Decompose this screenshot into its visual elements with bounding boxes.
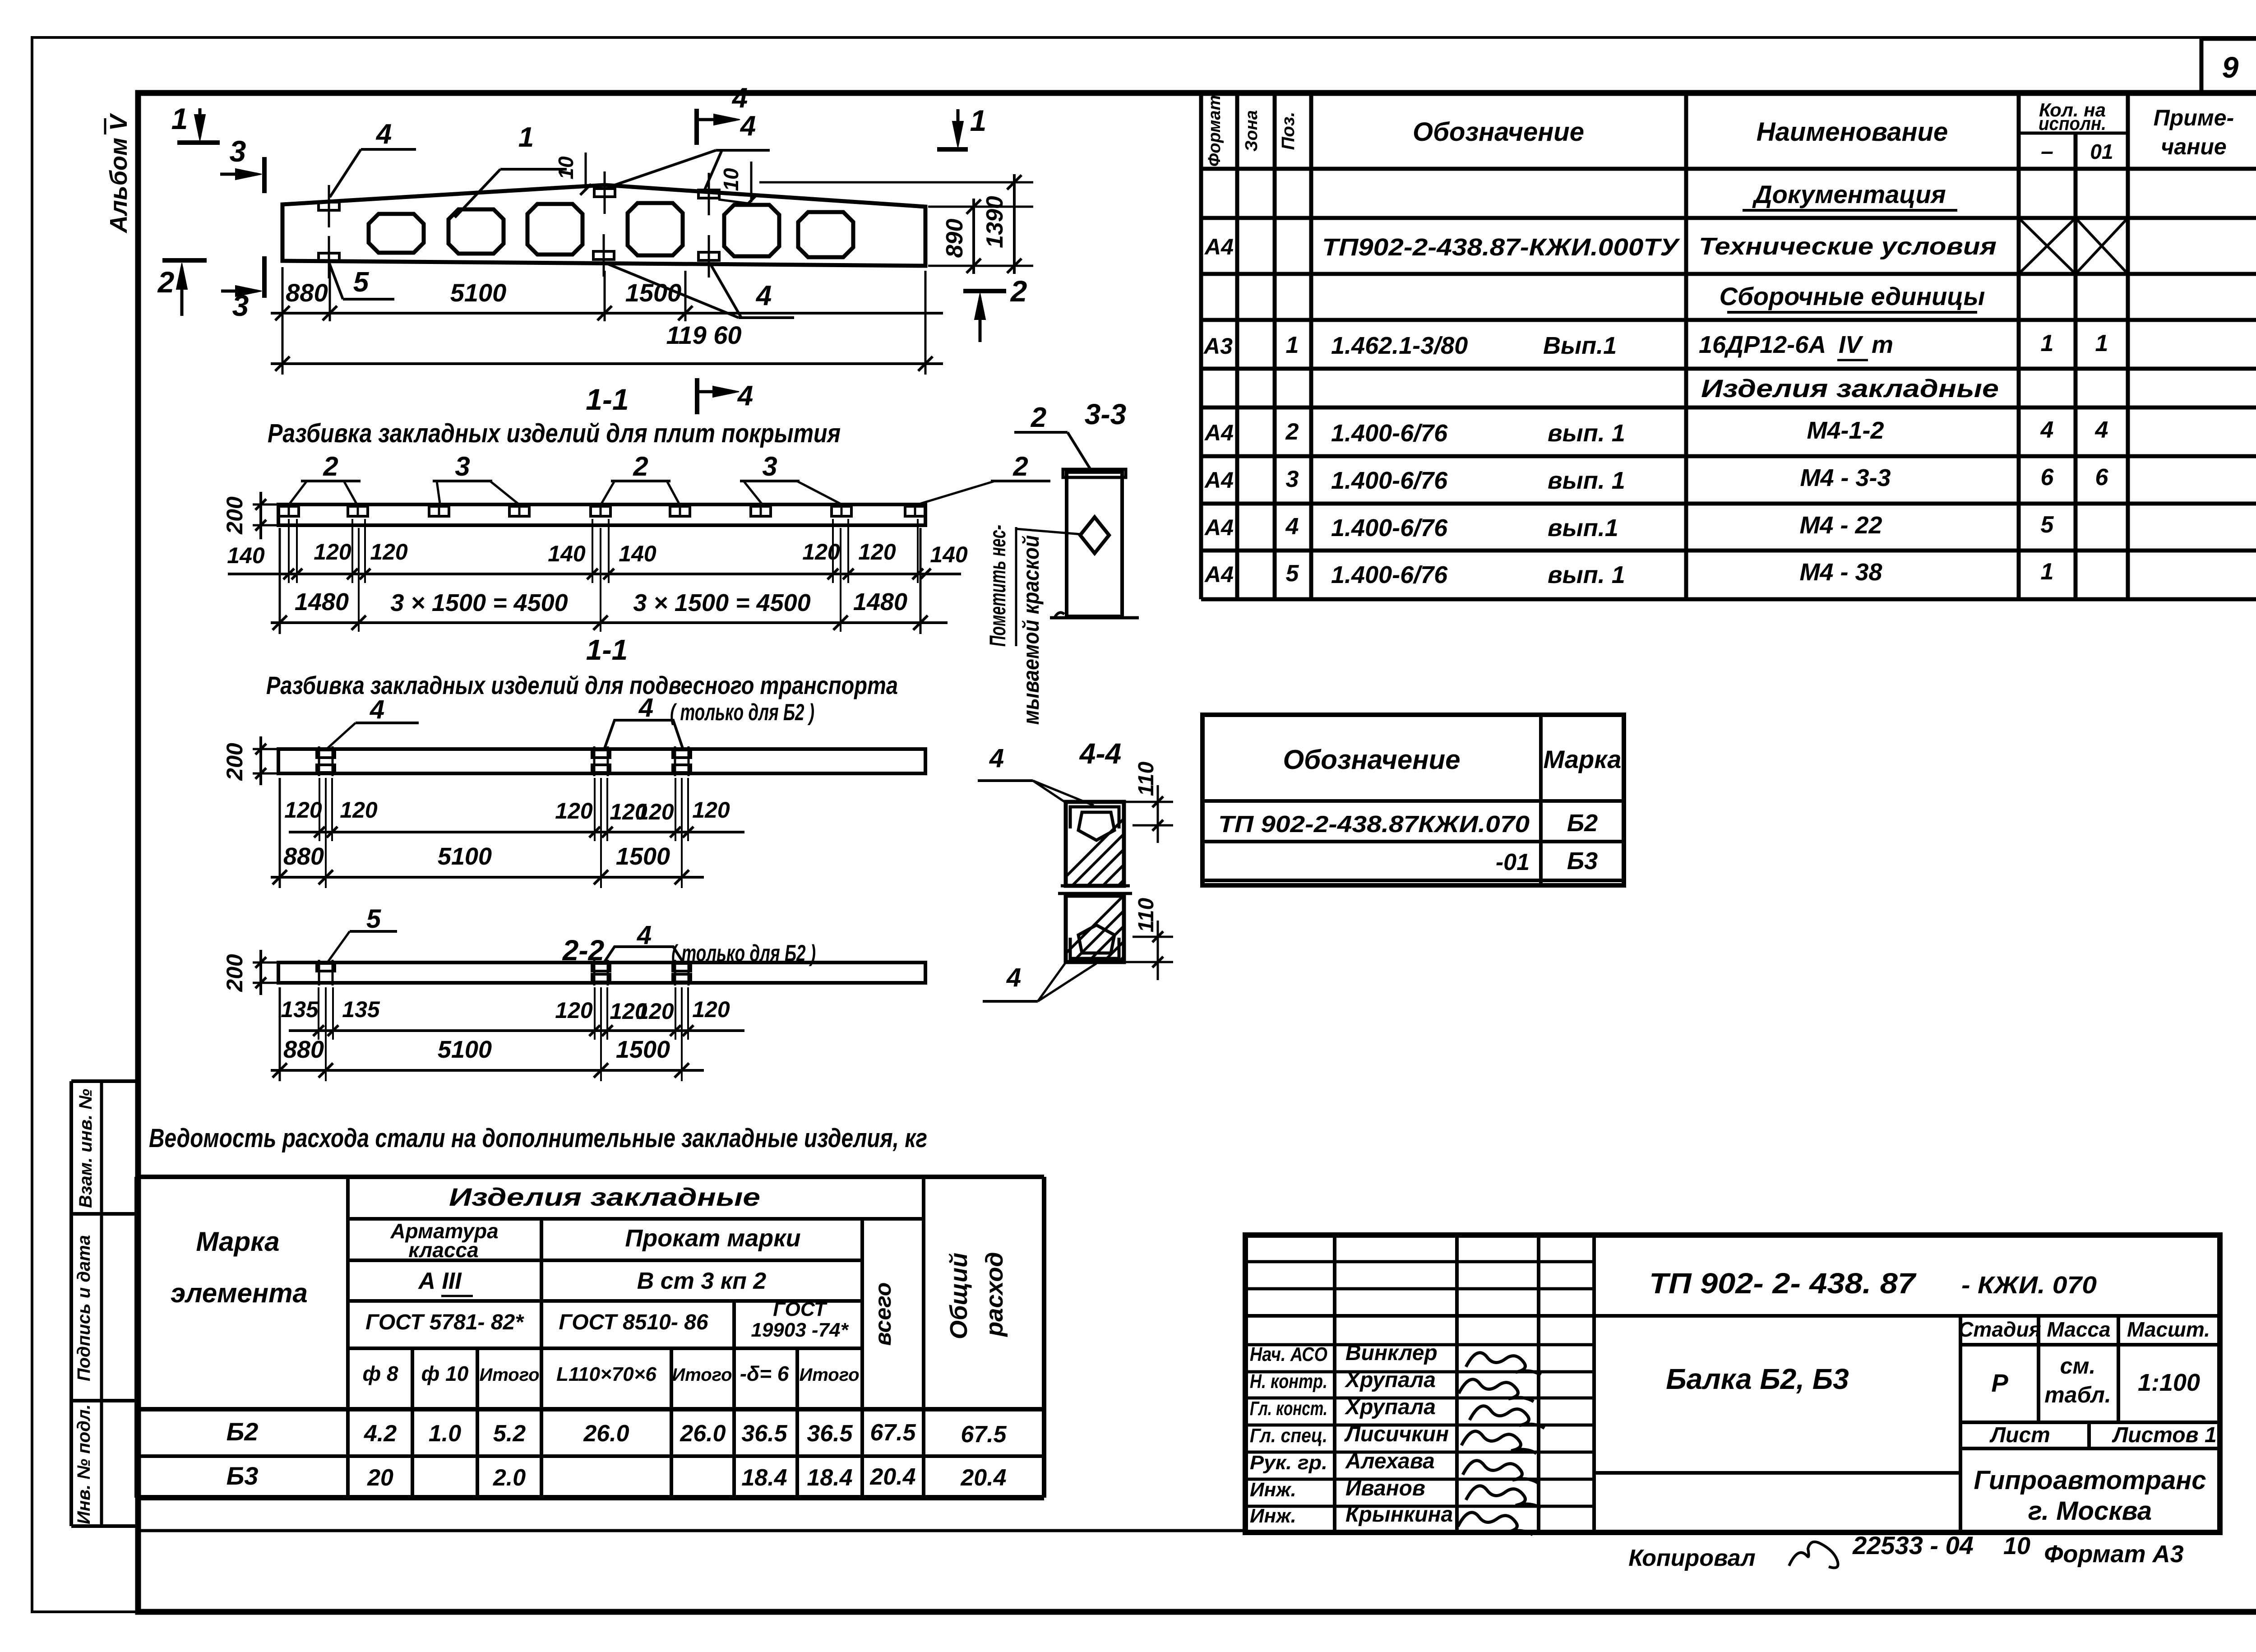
svg-text:Лисичкин: Лисичкин <box>1344 1422 1449 1446</box>
svg-text:3: 3 <box>762 451 777 481</box>
svg-text:120: 120 <box>555 998 593 1023</box>
title block vertical lines <box>1333 1235 1336 1532</box>
svg-text:ГОСТ: ГОСТ <box>773 1298 828 1320</box>
bar 1-1 height dim 200 <box>253 504 277 506</box>
svg-text:120: 120 <box>555 798 593 824</box>
svg-text:Зона: Зона <box>1242 110 1261 152</box>
svg-text:Винклер: Винклер <box>1345 1341 1438 1365</box>
svg-text:ГОСТ 8510- 86: ГОСТ 8510- 86 <box>559 1310 708 1334</box>
svg-text:3 × 1500 = 4500: 3 × 1500 = 4500 <box>633 589 810 616</box>
svg-text:6: 6 <box>2041 464 2054 491</box>
svg-text:Наименование: Наименование <box>1757 117 1948 147</box>
svg-text:140: 140 <box>619 541 656 566</box>
svg-text:5.2: 5.2 <box>493 1421 526 1447</box>
svg-text:2.0: 2.0 <box>493 1465 526 1491</box>
svg-text:вып. 1: вып. 1 <box>1548 467 1625 494</box>
svg-text:Хрупала: Хрупала <box>1344 1395 1436 1419</box>
svg-text:А3: А3 <box>1203 333 1233 359</box>
svg-text:Альбом V: Альбом V <box>105 113 132 234</box>
svg-text:4: 4 <box>737 380 753 412</box>
svg-text:200: 200 <box>222 743 247 781</box>
svg-text:Пометить нес-: Пометить нес- <box>985 525 1010 647</box>
bar 1-1 outline <box>278 504 925 525</box>
svg-text:26.0: 26.0 <box>583 1421 629 1447</box>
bar 2-2 bolts <box>317 963 335 971</box>
svg-text:Технические условия: Технические условия <box>1699 233 1997 260</box>
svg-text:135: 135 <box>281 997 319 1022</box>
svg-text:4: 4 <box>2040 417 2054 443</box>
svg-text:Прокат марки: Прокат марки <box>625 1225 800 1252</box>
left stamp boxes <box>69 1081 73 1526</box>
svg-text:67.5: 67.5 <box>961 1421 1007 1448</box>
svg-text:880: 880 <box>283 1036 324 1063</box>
bar 3 offset dims <box>289 1029 744 1032</box>
svg-text:вып. 1: вып. 1 <box>1548 561 1625 588</box>
svg-text:Приме-: Приме- <box>2154 105 2234 130</box>
svg-text:120: 120 <box>636 799 674 824</box>
svg-text:1.400-6/76: 1.400-6/76 <box>1331 467 1448 494</box>
svg-text:200: 200 <box>222 954 247 992</box>
svg-text:Инж.: Инж. <box>1250 1479 1296 1501</box>
svg-text:Стадия: Стадия <box>1958 1318 2041 1341</box>
svg-text:Инв. № подл.: Инв. № подл. <box>74 1404 94 1524</box>
svg-text:Итого: Итого <box>799 1365 859 1385</box>
svg-text:Взам. инв. №: Взам. инв. № <box>76 1089 96 1208</box>
svg-text:Масшт.: Масшт. <box>2127 1318 2210 1341</box>
svg-text:2: 2 <box>1285 419 1299 445</box>
svg-text:Марка: Марка <box>1544 745 1622 773</box>
svg-text:119 60: 119 60 <box>666 321 741 349</box>
beam height dim 890 <box>928 206 1033 208</box>
svg-text:22533 - 04: 22533 - 04 <box>1852 1531 1974 1559</box>
svg-text:880: 880 <box>283 843 324 870</box>
svg-text:Марка: Марка <box>196 1226 279 1257</box>
svg-text:Поз.: Поз. <box>1278 112 1298 150</box>
svg-text:Иванов: Иванов <box>1345 1476 1425 1500</box>
svg-text:4: 4 <box>740 111 756 142</box>
section 4-4 lower cut <box>1066 896 1124 962</box>
designation marka table <box>1202 715 1624 885</box>
svg-text:140: 140 <box>548 541 586 566</box>
svg-text:IV: IV <box>1839 331 1863 358</box>
svg-text:А III: А III <box>417 1268 462 1294</box>
svg-text:3: 3 <box>455 451 470 481</box>
svg-text:4: 4 <box>1285 514 1299 540</box>
svg-text:2: 2 <box>323 451 338 481</box>
svg-text:5: 5 <box>353 267 370 298</box>
svg-text:Итого: Итого <box>672 1365 732 1385</box>
svg-text:ТП902-2-438.87-КЖИ.000ТУ: ТП902-2-438.87-КЖИ.000ТУ <box>1322 234 1680 261</box>
svg-text:класса: класса <box>408 1238 478 1262</box>
svg-text:Б2: Б2 <box>1567 810 1598 837</box>
bar 1-1 embedded plates <box>279 506 299 516</box>
svg-text:Масса: Масса <box>2047 1318 2110 1341</box>
svg-text:120: 120 <box>636 999 674 1024</box>
svg-text:10: 10 <box>2003 1532 2030 1559</box>
svg-text:36.5: 36.5 <box>807 1421 853 1447</box>
svg-text:140: 140 <box>227 543 265 568</box>
svg-text:5: 5 <box>366 904 381 934</box>
svg-text:Общий: Общий <box>945 1253 972 1339</box>
svg-text:1500: 1500 <box>616 843 670 870</box>
svg-text:1390: 1390 <box>982 196 1008 248</box>
svg-text:1-1: 1-1 <box>586 383 629 416</box>
svg-text:3 × 1500 = 4500: 3 × 1500 = 4500 <box>390 589 568 616</box>
svg-text:1.0: 1.0 <box>429 1421 461 1447</box>
svg-text:26.0: 26.0 <box>680 1421 726 1447</box>
svg-text:-01: -01 <box>1496 849 1530 875</box>
svg-text:880: 880 <box>286 278 328 307</box>
svg-text:Разбивка закладных изделий: Разбивка закладных изделий для подвесног… <box>266 671 898 699</box>
section 3-3 base line <box>1050 616 1139 620</box>
embedded plate 4 bottom middle <box>593 251 614 259</box>
svg-text:ТП 902- 2- 438. 87: ТП 902- 2- 438. 87 <box>1649 1267 1917 1300</box>
svg-text:1: 1 <box>1286 332 1299 358</box>
svg-text:ф 10: ф 10 <box>421 1362 469 1385</box>
section 3-3 top plate 2 <box>1063 469 1126 477</box>
bar 1-1 main dim line <box>271 621 948 624</box>
embedded plate 4 top right <box>698 190 719 198</box>
svg-text:чание: чание <box>2161 134 2227 159</box>
bar 2 height dim 200 <box>253 748 277 750</box>
section 4-4 upper channel <box>1070 807 1119 828</box>
svg-text:6: 6 <box>2095 464 2109 491</box>
svg-text:120: 120 <box>340 797 378 823</box>
title block horizontal lines <box>1245 1260 1594 1263</box>
svg-text:120: 120 <box>692 797 730 823</box>
bar 3 main dims <box>271 1069 704 1072</box>
svg-text:Гипроавтотранс: Гипроавтотранс <box>1974 1466 2206 1495</box>
svg-text:Обозначение: Обозначение <box>1413 117 1584 147</box>
svg-text:890: 890 <box>942 219 968 258</box>
svg-text:135: 135 <box>342 997 380 1022</box>
svg-text:табл.: табл. <box>2044 1382 2111 1407</box>
svg-text:всего: всего <box>870 1282 896 1346</box>
svg-text:Рук. гр.: Рук. гр. <box>1250 1452 1327 1474</box>
beam B2 elevation outline <box>282 185 925 266</box>
svg-text:2: 2 <box>633 451 648 481</box>
svg-text:А4: А4 <box>1204 234 1234 259</box>
section 4-4 break lines <box>1061 884 1130 888</box>
svg-text:Р: Р <box>1991 1369 2008 1397</box>
svg-text:4: 4 <box>375 119 392 150</box>
svg-text:10: 10 <box>554 156 578 180</box>
svg-text:1: 1 <box>518 122 534 153</box>
svg-text:1: 1 <box>970 104 987 137</box>
svg-text:10: 10 <box>719 168 743 191</box>
svg-text:120: 120 <box>370 539 408 565</box>
beam holes <box>369 214 424 253</box>
svg-text:Нач. АСО: Нач. АСО <box>1250 1343 1327 1365</box>
svg-text:Формат: Формат <box>1205 95 1224 167</box>
svg-text:1: 1 <box>2041 559 2054 585</box>
svg-text:18.4: 18.4 <box>741 1465 787 1491</box>
svg-text:исполн.: исполн. <box>2039 113 2106 134</box>
svg-text:вып.1: вып.1 <box>1548 514 1618 541</box>
bar 1-1 second outline <box>278 749 925 773</box>
svg-text:4: 4 <box>2095 417 2108 443</box>
svg-text:Итого: Итого <box>479 1365 539 1385</box>
svg-text:ф 8: ф 8 <box>362 1362 398 1385</box>
svg-text:А4: А4 <box>1204 420 1234 445</box>
svg-text:110: 110 <box>1134 898 1158 932</box>
svg-text:–: – <box>2041 139 2053 164</box>
svg-text:элемента: элемента <box>171 1278 308 1308</box>
svg-text:Гл. спец.: Гл. спец. <box>1250 1425 1327 1447</box>
svg-text:140: 140 <box>930 542 968 567</box>
svg-text:Копировал: Копировал <box>1628 1545 1755 1571</box>
svg-text:5100: 5100 <box>438 843 492 870</box>
bar 2-2 outline <box>278 963 925 983</box>
title block signatures <box>1466 1353 1541 1375</box>
svg-text:18.4: 18.4 <box>807 1465 852 1491</box>
svg-text:1500: 1500 <box>616 1036 670 1063</box>
section 3-3 column <box>1067 472 1122 616</box>
svg-text:Изделия закладные: Изделия закладные <box>449 1183 760 1211</box>
svg-text:см.: см. <box>2060 1353 2096 1379</box>
svg-text:А4: А4 <box>1204 562 1234 587</box>
svg-text:19903 -74*: 19903 -74* <box>751 1319 849 1341</box>
svg-text:1: 1 <box>2095 330 2108 356</box>
svg-text:Гл. конст.: Гл. конст. <box>1250 1397 1327 1420</box>
svg-text:5100: 5100 <box>450 278 507 307</box>
embedded plate 4 top middle <box>594 189 615 197</box>
svg-text:1: 1 <box>171 102 188 135</box>
svg-text:1500: 1500 <box>625 278 682 307</box>
svg-text:5100: 5100 <box>438 1036 492 1063</box>
bar 1-1 plate offset dims <box>228 573 961 575</box>
svg-text:1:100: 1:100 <box>2138 1369 2200 1396</box>
bar 2 main dims <box>271 876 704 879</box>
svg-text:А4: А4 <box>1204 515 1234 540</box>
embedded plate 4 top left <box>319 202 339 210</box>
section mark 4 near 1-1 title <box>695 378 699 414</box>
vedomost table grid <box>134 1177 139 1498</box>
svg-text:1-1: 1-1 <box>586 634 628 666</box>
svg-text:4: 4 <box>731 83 748 114</box>
svg-text:120: 120 <box>314 539 351 565</box>
bar 1-1 second bolts <box>317 750 335 758</box>
svg-text:36.5: 36.5 <box>741 1421 787 1447</box>
svg-text:г. Москва: г. Москва <box>2028 1496 2152 1526</box>
svg-text:Разбивка закладных изделий: Разбивка закладных изделий для плит покр… <box>268 419 841 448</box>
svg-text:1.400-6/76: 1.400-6/76 <box>1331 420 1448 447</box>
svg-text:М4 - 3-3: М4 - 3-3 <box>1800 464 1891 491</box>
svg-text:4.2: 4.2 <box>364 1421 397 1447</box>
bar 2 offset dims <box>289 831 744 833</box>
svg-text:1.400-6/76: 1.400-6/76 <box>1331 561 1448 588</box>
svg-text:1480: 1480 <box>853 588 907 615</box>
svg-text:Балка Б2, Б3: Балка Б2, Б3 <box>1666 1363 1849 1395</box>
section 4-4 lower channel <box>1070 938 1119 958</box>
svg-text:4: 4 <box>638 693 653 722</box>
svg-text:120: 120 <box>802 539 840 565</box>
svg-text:16ДР12-6А: 16ДР12-6А <box>1699 331 1826 358</box>
horizontal rule to title block <box>138 1529 1245 1532</box>
svg-text:Листов 1: Листов 1 <box>2112 1423 2216 1447</box>
svg-text:5: 5 <box>2041 512 2054 538</box>
svg-text:Формат А3: Формат А3 <box>2044 1541 2183 1568</box>
svg-text:т: т <box>1872 331 1893 358</box>
svg-text:Крынкина: Крынкина <box>1345 1503 1453 1527</box>
svg-text:1: 1 <box>2041 330 2054 356</box>
svg-text:М4-1-2: М4-1-2 <box>1807 417 1884 444</box>
svg-text:4: 4 <box>370 695 384 724</box>
svg-text:1.400-6/76: 1.400-6/76 <box>1331 514 1448 541</box>
svg-text:( только для Б2 ): ( только для Б2 ) <box>670 699 814 726</box>
svg-text:120: 120 <box>858 539 896 565</box>
embedded plate 5 bottom left <box>319 253 339 261</box>
svg-text:20.4: 20.4 <box>869 1464 915 1490</box>
svg-text:Алехава: Алехава <box>1345 1449 1435 1473</box>
embedded plate 4 bottom right <box>698 252 719 260</box>
svg-text:2: 2 <box>1010 274 1027 308</box>
svg-text:3-3: 3-3 <box>1085 398 1127 430</box>
svg-text:2: 2 <box>1031 402 1046 433</box>
svg-text:мываемой краской: мываемой краской <box>1018 535 1044 725</box>
svg-text:А4: А4 <box>1204 467 1234 493</box>
svg-text:Б3: Б3 <box>227 1462 259 1490</box>
svg-text:4-4: 4-4 <box>1079 737 1122 770</box>
svg-text:ГОСТ 5781- 82*: ГОСТ 5781- 82* <box>365 1310 524 1334</box>
svg-text:2: 2 <box>1012 451 1028 481</box>
svg-text:Документация: Документация <box>1752 180 1946 208</box>
svg-text:Обозначение: Обозначение <box>1283 745 1460 775</box>
svg-text:3: 3 <box>1286 466 1299 492</box>
bar 3 height dim 200 <box>253 962 277 964</box>
svg-text:200: 200 <box>222 496 247 535</box>
svg-text:М4 - 38: М4 - 38 <box>1799 559 1882 586</box>
beam horizontal dim line 880-5100-1500 <box>271 312 943 315</box>
svg-text:В ст 3 кп 2: В ст 3 кп 2 <box>637 1268 767 1294</box>
section 3-3 diamond mark <box>1080 517 1109 553</box>
svg-text:- КЖИ. 070: - КЖИ. 070 <box>1961 1272 2097 1299</box>
svg-text:ТП 902-2-438.87КЖИ.070: ТП 902-2-438.87КЖИ.070 <box>1218 811 1530 838</box>
beam height dim 1390 <box>759 181 1033 184</box>
svg-text:Сборочные единицы: Сборочные единицы <box>1720 282 1985 310</box>
svg-text:М4 - 22: М4 - 22 <box>1799 512 1882 539</box>
beam overall dim line 11960 <box>271 362 943 365</box>
section 4-4 upper cut <box>1066 802 1124 886</box>
svg-text:120: 120 <box>692 997 730 1022</box>
svg-text:Инж.: Инж. <box>1250 1505 1296 1527</box>
svg-text:L110×70×6: L110×70×6 <box>556 1363 656 1385</box>
svg-text:4: 4 <box>989 744 1004 773</box>
title block outline <box>1245 1235 2220 1532</box>
svg-text:Лист: Лист <box>1989 1423 2050 1447</box>
specification table grid <box>1199 93 1203 599</box>
svg-text:Подпись и дата: Подпись и дата <box>74 1235 94 1381</box>
svg-text:5: 5 <box>1286 560 1299 587</box>
svg-text:20.4: 20.4 <box>960 1465 1006 1491</box>
svg-text:Изделия закладные: Изделия закладные <box>1701 374 1999 403</box>
svg-text:Н. контр.: Н. контр. <box>1250 1370 1327 1393</box>
svg-text:1.462.1-3/80: 1.462.1-3/80 <box>1331 332 1468 359</box>
svg-text:Вып.1: Вып.1 <box>1543 332 1617 359</box>
svg-text:-δ= 6: -δ= 6 <box>740 1362 789 1385</box>
svg-text:9: 9 <box>2222 51 2239 84</box>
svg-text:20: 20 <box>367 1465 393 1491</box>
svg-text:Б3: Б3 <box>1567 847 1598 875</box>
svg-text:01: 01 <box>2090 140 2113 163</box>
svg-text:4: 4 <box>1006 963 1021 992</box>
svg-text:Хрупала: Хрупала <box>1344 1368 1436 1392</box>
svg-text:110: 110 <box>1134 761 1158 796</box>
svg-text:расход: расход <box>981 1252 1008 1337</box>
svg-text:120: 120 <box>284 797 322 823</box>
svg-text:Ведомость расхода стали на доп: Ведомость расхода стали на дополнительны… <box>149 1124 927 1153</box>
svg-text:2: 2 <box>157 265 175 299</box>
svg-text:3: 3 <box>230 134 246 168</box>
sheet number box 9 <box>2201 39 2256 93</box>
svg-text:67.5: 67.5 <box>870 1420 916 1446</box>
svg-text:1480: 1480 <box>295 588 349 615</box>
svg-text:вып. 1: вып. 1 <box>1548 420 1625 447</box>
svg-text:4: 4 <box>755 280 772 311</box>
svg-text:Б2: Б2 <box>227 1417 259 1446</box>
